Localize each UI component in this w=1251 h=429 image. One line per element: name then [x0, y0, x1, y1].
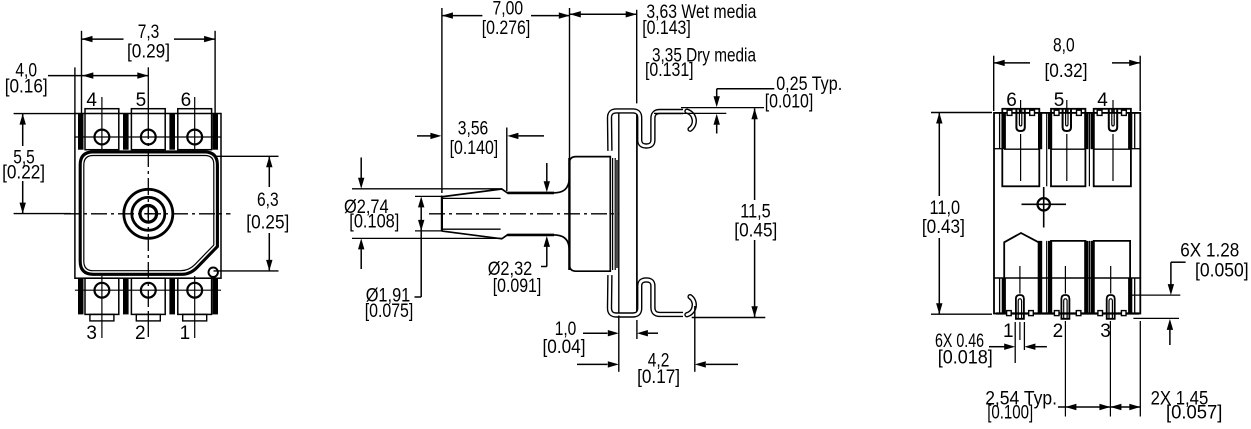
- top band thick edge bars: [1002, 113, 1006, 149]
- dim 0,25 extension lines: [681, 107, 764, 109]
- side wall right bottom segment: [1134, 278, 1136, 314]
- bottom area line: [994, 277, 1140, 279]
- svg-text:6: 6: [181, 90, 192, 111]
- dim 0,25 arrows and leader: [716, 89, 718, 97]
- top blocks inner line: [1004, 148, 1039, 150]
- top edge notches: [1007, 110, 1126, 115]
- top block 6: [1002, 109, 1039, 187]
- dim 7,00 line: [442, 15, 483, 17]
- svg-text:3,56: 3,56: [458, 119, 489, 140]
- dim 1,0 extension lines: [618, 316, 620, 372]
- dim 4,0 line: [48, 75, 148, 77]
- svg-text:[0.16]: [0.16]: [5, 76, 48, 97]
- port circle inner: [140, 206, 157, 223]
- vent hole: [1038, 198, 1050, 210]
- port bore lines: [443, 197, 501, 199]
- svg-text:[0.140]: [0.140]: [450, 138, 499, 159]
- dim 4,2 extension line: [694, 306, 696, 372]
- dim 11,5 extension line bottom: [692, 317, 766, 319]
- dim 7,00 extension line left: [441, 8, 443, 193]
- pin hole 2: [141, 283, 156, 298]
- clip bottom hook: [687, 297, 694, 315]
- svg-text:[0.075]: [0.075]: [365, 301, 414, 322]
- svg-text:5: 5: [136, 90, 147, 111]
- skirt mounting face: [568, 158, 570, 270]
- svg-text:7,3: 7,3: [138, 22, 160, 43]
- svg-text:[0.018]: [0.018]: [938, 348, 993, 369]
- svg-text:6,3: 6,3: [257, 190, 279, 211]
- index hole: [209, 268, 218, 277]
- sensor plate left face: [618, 112, 620, 314]
- dim 6X 1.28 leader and arrows: [1171, 261, 1186, 263]
- dim 3,63 line: [570, 13, 637, 15]
- svg-text:[0.108]: [0.108]: [349, 212, 399, 233]
- svg-text:[0.29]: [0.29]: [127, 41, 170, 62]
- sensor body rounded square inner line: [84, 156, 214, 271]
- svg-text:2: 2: [1053, 321, 1064, 342]
- left view texts: [2, 22, 289, 344]
- dim 6X 0.46 arrows: [989, 346, 1005, 348]
- hole line bottom row: [75, 289, 221, 291]
- pin 6 metal cross-section: [1016, 109, 1024, 131]
- dim 11,0 extension lines: [931, 112, 992, 114]
- center cross: [144, 210, 152, 218]
- dim 2,54 line: [1058, 406, 1110, 408]
- svg-text:[0.43]: [0.43]: [922, 217, 965, 238]
- svg-text:4: 4: [86, 90, 97, 111]
- clip top hook: [687, 111, 694, 129]
- lead tab pin 2: [136, 314, 160, 321]
- pin hole 3: [95, 283, 110, 298]
- port tube thick edges: [507, 192, 554, 195]
- pin housing 3 (bottom row): [85, 278, 119, 314]
- right view texts: [922, 36, 1249, 424]
- pin housing 5 (top row): [131, 109, 165, 150]
- top block 5: [1051, 109, 1085, 187]
- pin 1 centerline: [194, 276, 196, 338]
- dim 8,0 extension lines: [993, 56, 995, 111]
- pin 6 centerline: [194, 97, 196, 150]
- dim 11,5 line: [754, 108, 756, 200]
- mounting clip bottom: [610, 275, 695, 315]
- port circle outer: [124, 189, 173, 238]
- horizontal centerline: [429, 213, 619, 215]
- bottom band thick edge bars: [1002, 278, 1006, 314]
- dim 2X 1,45 extension line: [1139, 321, 1141, 417]
- svg-text:3: 3: [86, 323, 97, 344]
- pin housing 2 (bottom row): [131, 278, 165, 314]
- svg-text:[0.45]: [0.45]: [734, 221, 777, 242]
- dim 5,5 extension lines: [14, 113, 76, 115]
- svg-text:1: 1: [180, 323, 191, 344]
- bottom body edge thick line: [996, 312, 1139, 314]
- sensor body rounded square outer: [80, 152, 217, 274]
- dim 8,0 line: [994, 62, 1030, 64]
- mounting clip top: [610, 111, 695, 151]
- dim 6,3 line: [268, 156, 270, 187]
- middle view texts: [344, 0, 842, 388]
- svg-text:[0.25]: [0.25]: [246, 213, 289, 234]
- svg-text:[0.04]: [0.04]: [543, 337, 586, 358]
- svg-text:[0.100]: [0.100]: [987, 403, 1033, 424]
- dim 2X 1,45 arrows: [1110, 406, 1140, 408]
- svg-text:11,0: 11,0: [930, 198, 961, 219]
- svg-text:5: 5: [1054, 90, 1065, 111]
- bottom block pin3: [1094, 241, 1130, 314]
- horizontal centerline: [64, 213, 231, 215]
- hole line top row: [75, 136, 221, 138]
- pin 4 metal cross-section: [1109, 109, 1117, 131]
- top block 4: [1094, 109, 1131, 187]
- pin centerlines top: [1020, 100, 1022, 112]
- side wall right top segment: [1134, 113, 1136, 149]
- svg-text:[0.131]: [0.131]: [645, 60, 694, 81]
- svg-text:[0.17]: [0.17]: [637, 367, 680, 388]
- dim 7,3 line: [82, 38, 124, 40]
- bottom block pin1 (pentagon): [1004, 233, 1038, 314]
- dim 6,3 extension lines: [214, 155, 279, 157]
- svg-text:7,00: 7,00: [493, 0, 524, 20]
- bottom feet tabs: [1007, 311, 1126, 316]
- pin housing 1 (bottom row): [178, 278, 212, 314]
- dim 6X 1.28 extension lines: [1132, 294, 1180, 296]
- dim 11,0 line: [938, 113, 940, 197]
- svg-text:6X 1.28: 6X 1.28: [1180, 241, 1239, 262]
- svg-text:8,0: 8,0: [1053, 36, 1075, 57]
- svg-text:[0.32]: [0.32]: [1045, 61, 1088, 82]
- svg-text:[0.143]: [0.143]: [642, 18, 691, 39]
- svg-text:6: 6: [1006, 90, 1017, 111]
- port tip face: [441, 196, 443, 231]
- side wall left bottom segment: [999, 278, 1001, 314]
- svg-text:[0.276]: [0.276]: [482, 18, 531, 39]
- svg-text:3: 3: [1100, 321, 1111, 342]
- pin hole 6: [187, 130, 202, 145]
- dim D2,32 arrows and leader: [546, 163, 548, 182]
- pin hole 4: [95, 130, 110, 145]
- bottom block pin2: [1051, 241, 1085, 314]
- dim 4,0 extension line: [74, 67, 76, 114]
- dim D2,74 arrows: [360, 158, 362, 179]
- skirt gasket lines: [612, 158, 614, 270]
- dim 7,00 extension line right / skirt face extension: [569, 8, 571, 158]
- svg-text:[0.091]: [0.091]: [493, 276, 542, 297]
- dim 3,63 wet/dry media extension line: [636, 10, 638, 104]
- svg-text:11,5: 11,5: [740, 202, 771, 223]
- pin hole 1: [187, 283, 202, 298]
- body outline: [994, 113, 1140, 314]
- dim 3,56 arrows: [417, 135, 431, 137]
- side wall left top segment: [999, 113, 1001, 149]
- pin centerline segments inside blocks: [1020, 134, 1022, 181]
- pin 1 metal cross-section: [1016, 295, 1024, 319]
- pin 4 centerline: [101, 97, 103, 150]
- dim D1,91 extension lines: [415, 195, 442, 197]
- seam lines between blocks: [1046, 113, 1048, 186]
- svg-text:[0.010]: [0.010]: [765, 92, 814, 113]
- port circle middle: [132, 197, 165, 230]
- pin hole 5: [141, 130, 156, 145]
- svg-text:[0.057]: [0.057]: [1166, 403, 1222, 424]
- sensor plate right face: [636, 111, 638, 315]
- vertical centerline: [147, 67, 149, 122]
- dim 4,2 arrows: [577, 363, 608, 365]
- dim D1,91 arrows and leader: [420, 206, 422, 297]
- pressure port outline: [442, 157, 610, 272]
- dim 6X 0.46 extension lines: [1014, 322, 1016, 363]
- svg-text:4: 4: [1097, 90, 1108, 111]
- dim 7,3 extension lines: [81, 31, 83, 120]
- pin housing 4 (top row): [85, 109, 119, 150]
- dim 5,5 line: [22, 114, 24, 146]
- dim 1,0 arrows: [583, 332, 608, 334]
- pin 2 metal cross-section: [1061, 295, 1069, 319]
- pin 3 metal cross-section: [1107, 295, 1115, 319]
- pin centerlines bottom: [1019, 322, 1021, 340]
- lead tab pin 1: [183, 314, 207, 321]
- bottom block separators: [1038, 241, 1042, 314]
- pin housing 6 (top row): [178, 109, 212, 150]
- dim D2,74 extension lines: [352, 188, 502, 190]
- body edge bars: [78, 114, 218, 315]
- svg-text:[0.050]: [0.050]: [1195, 260, 1249, 281]
- svg-text:1: 1: [1003, 321, 1014, 342]
- lead tab pin 3: [90, 314, 114, 321]
- dim 3,56 extension line: [506, 128, 508, 192]
- sensor base plate: [75, 114, 221, 279]
- svg-text:2: 2: [135, 323, 146, 344]
- svg-text:[0.22]: [0.22]: [2, 162, 45, 183]
- pin 3 centerline: [101, 276, 103, 338]
- pin 5 metal cross-section: [1063, 109, 1071, 131]
